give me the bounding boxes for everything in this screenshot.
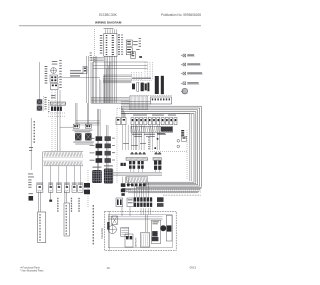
svg-text:* Non-Illustrated Parts: * Non-Illustrated Parts [20,269,44,272]
svg-text:DEFROST: DEFROST [136,237,138,247]
svg-text:Publication No. 5995606265: Publication No. 5995606265 [161,13,201,17]
svg-text:0913: 0913 [190,266,197,270]
svg-text:EI23BC30K: EI23BC30K [99,13,117,17]
svg-text:WIRING DIAGRAM: WIRING DIAGRAM [95,21,122,25]
svg-text:19: 19 [106,266,110,270]
svg-text:FREEZER: FREEZER [101,228,104,239]
